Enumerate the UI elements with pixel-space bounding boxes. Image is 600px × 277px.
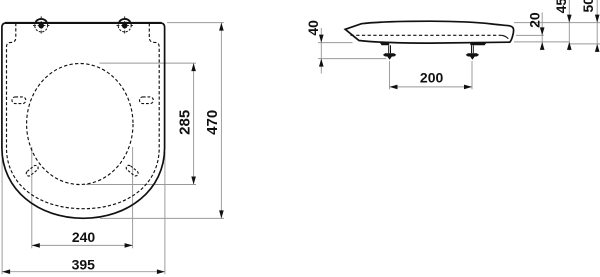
svg-text:395: 395 <box>72 257 96 273</box>
svg-text:40: 40 <box>305 20 321 36</box>
svg-text:20: 20 <box>527 12 543 28</box>
svg-text:50: 50 <box>580 0 596 12</box>
svg-text:240: 240 <box>72 229 96 245</box>
svg-text:200: 200 <box>420 70 444 86</box>
svg-text:45: 45 <box>553 0 569 13</box>
svg-text:285: 285 <box>176 110 193 135</box>
svg-text:470: 470 <box>204 110 221 135</box>
